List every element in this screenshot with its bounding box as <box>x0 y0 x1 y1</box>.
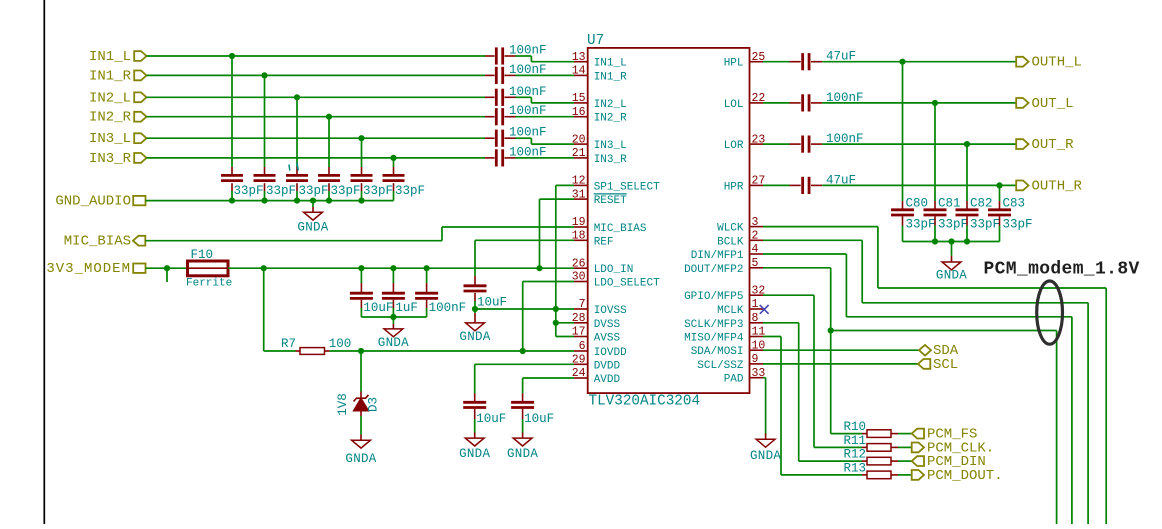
svg-text:IN2_L: IN2_L <box>89 90 131 106</box>
junction IN2_L <box>294 94 300 100</box>
junction IN2_R <box>326 114 332 120</box>
hierarchical label PCM_FS <box>912 427 978 443</box>
resistor R7 100 <box>281 337 351 354</box>
resistor R12 <box>843 448 898 465</box>
pin 5 DOUT/MFP2 <box>684 257 763 276</box>
junction DVSS <box>553 320 559 326</box>
junction OUTH_L <box>899 59 905 65</box>
wire R12 feed <box>763 323 867 461</box>
svg-text:D3: D3 <box>366 397 380 412</box>
wire HPR to cap <box>763 184 801 186</box>
svg-text:3: 3 <box>752 216 759 229</box>
capacitor C81 33pF <box>924 197 969 242</box>
svg-text:MCLK: MCLK <box>717 305 744 317</box>
svg-text:IOVDD: IOVDD <box>594 347 627 359</box>
ground GNDA C80 bank <box>936 242 967 283</box>
pin 3 WLCK <box>717 216 763 235</box>
svg-text:C82: C82 <box>970 197 993 211</box>
hierarchical label GND_AUDIO <box>55 194 145 210</box>
wire IN2_L row <box>147 96 495 98</box>
capacitor 100nF C-in3 <box>496 85 546 106</box>
pin 2 BCLK <box>717 230 763 249</box>
pin 22 LOL <box>724 92 766 111</box>
svg-text:2: 2 <box>752 230 759 243</box>
svg-text:1V8: 1V8 <box>336 393 350 416</box>
junction IN1_L <box>229 53 235 59</box>
wire R13 feed <box>763 337 867 475</box>
junction IN1_R <box>261 72 267 78</box>
svg-text:1uF: 1uF <box>395 301 418 315</box>
wire SP1_SELECT tie to IOVSS <box>556 185 574 336</box>
svg-text:33pF: 33pF <box>970 217 1000 231</box>
pin 6 IOVDD <box>574 340 627 359</box>
capacitor 100nF C-in5 <box>496 126 546 147</box>
svg-text:R10: R10 <box>843 420 866 434</box>
svg-text:PCM_DOUT.: PCM_DOUT. <box>927 468 1003 484</box>
svg-text:SCLK/MFP3: SCLK/MFP3 <box>684 319 743 331</box>
svg-text:GNDA: GNDA <box>459 447 490 461</box>
hierarchical label 3V3_MODEM <box>46 261 145 277</box>
pin 31 RESET <box>572 188 627 207</box>
svg-text:Ferrite: Ferrite <box>186 278 232 290</box>
junction DOUT to R10 <box>828 327 834 333</box>
hierarchical label IN3_R <box>89 151 147 167</box>
capacitor 10uF decoupling <box>350 268 394 317</box>
wire C81 drop <box>934 103 936 210</box>
svg-text:TLV320AIC3204: TLV320AIC3204 <box>589 394 701 410</box>
svg-text:RESET: RESET <box>594 195 627 207</box>
wire cap to pin 20 <box>516 138 575 144</box>
pin 28 DVSS <box>572 312 621 331</box>
svg-text:C83: C83 <box>1003 197 1026 211</box>
svg-text:100nF: 100nF <box>429 301 467 315</box>
junction OUTH_R <box>996 182 1002 188</box>
svg-text:R7: R7 <box>281 337 296 351</box>
capacitor 10uF AVDD <box>511 402 554 426</box>
svg-text:HPR: HPR <box>724 181 744 193</box>
svg-text:PAD: PAD <box>724 374 744 386</box>
wire SCL <box>763 363 918 365</box>
capacitor C80 33pF <box>891 197 936 242</box>
hierarchical label IN1_L <box>89 49 147 65</box>
pin 23 LOR <box>724 133 766 152</box>
pin 30 LDO_SELECT <box>572 271 660 290</box>
svg-text:GNDA: GNDA <box>345 452 376 466</box>
pin 29 DVDD <box>572 354 621 373</box>
svg-text:3V3_MODEM: 3V3_MODEM <box>46 261 131 277</box>
svg-text:33pF: 33pF <box>938 217 968 231</box>
junction GND_AUDIO <box>294 198 300 204</box>
pin 18 REF <box>572 230 614 249</box>
capacitor 47uF output 4 <box>803 173 856 194</box>
ground GNDA REF cap <box>459 313 490 344</box>
svg-text:R13: R13 <box>843 461 866 475</box>
pin 25 HPL <box>724 51 766 70</box>
junction C80 bus <box>948 238 954 244</box>
svg-text:4: 4 <box>752 243 759 256</box>
svg-text:DOUT/MFP2: DOUT/MFP2 <box>684 264 743 276</box>
pin 12 SP1_SELECT <box>572 175 660 194</box>
capacitor 100nF C-in2 <box>496 63 546 84</box>
svg-text:IN3_L: IN3_L <box>89 131 131 147</box>
svg-text:HPL: HPL <box>724 58 744 70</box>
svg-text:LOL: LOL <box>724 99 744 111</box>
svg-text:WLCK: WLCK <box>717 223 744 235</box>
svg-text:GNDA: GNDA <box>936 269 967 283</box>
wire R10 feed <box>831 331 867 434</box>
svg-text:33pF: 33pF <box>1003 217 1033 231</box>
junction D3 tap <box>358 348 364 354</box>
wire R10 to PCM_FS <box>898 433 912 435</box>
wire C80 bank bus <box>903 241 1000 243</box>
svg-text:F10: F10 <box>191 248 214 262</box>
svg-text:OUT_L: OUT_L <box>1032 96 1074 112</box>
capacitor C83 33pF <box>988 197 1033 242</box>
hierarchical label IN1_R <box>89 68 147 84</box>
wire DOUT/MFP2 bus <box>763 268 1057 524</box>
svg-text:GNDA: GNDA <box>378 336 409 350</box>
junction 3V3 rail <box>424 265 430 271</box>
wire 3V3 branch to R7 <box>264 268 300 351</box>
wire 3V3 rail <box>228 267 574 269</box>
wire REF <box>475 240 574 286</box>
svg-text:10uF: 10uF <box>524 412 554 426</box>
svg-text:DVDD: DVDD <box>594 360 621 372</box>
svg-text:GNDA: GNDA <box>459 330 490 344</box>
capacitor 100nF output 2 <box>803 91 864 112</box>
no-connect X on pin 1 MCLK <box>760 305 769 314</box>
svg-text:33pF: 33pF <box>266 184 296 198</box>
junction OUT_L <box>932 100 938 106</box>
wire DIN/MFP1 bus <box>763 254 1072 524</box>
svg-text:IN2_L: IN2_L <box>594 99 627 111</box>
svg-text:10uF: 10uF <box>476 412 506 426</box>
svg-text:GPIO/MFP5: GPIO/MFP5 <box>684 291 743 303</box>
svg-text:10uF: 10uF <box>477 296 507 310</box>
pin 19 MIC_BIAS <box>572 216 647 235</box>
svg-text:6: 6 <box>579 340 586 353</box>
pin 32 GPIO/MFP5 <box>684 284 765 303</box>
wire C80 drop <box>902 62 904 211</box>
svg-text:AVSS: AVSS <box>594 333 621 345</box>
svg-text:IN1_L: IN1_L <box>89 49 131 65</box>
svg-text:LDO_SELECT: LDO_SELECT <box>594 278 660 290</box>
junction C80 bus <box>932 238 938 244</box>
junction OUT_R <box>964 141 970 147</box>
capacitor 100nF decoupling <box>415 268 466 317</box>
junction GND_AUDIO <box>261 198 267 204</box>
wire IOVSS row <box>475 308 574 310</box>
pin 8 SCLK/MFP3 <box>684 312 763 331</box>
capacitor 100nF output 3 <box>803 132 864 153</box>
wire IN3_L row <box>147 137 495 139</box>
hierarchical label IN2_R <box>89 110 147 126</box>
capacitor 33pF bank2 <box>254 175 297 200</box>
pin 24 AVDD <box>572 367 621 386</box>
hierarchical label PCM_CLK. <box>912 440 995 456</box>
pin 33 PAD <box>724 367 766 386</box>
wire SDA <box>763 349 919 351</box>
junction IN3_R <box>390 155 396 161</box>
wire IN2_R drop to 33pF <box>328 117 330 176</box>
junction GND_AUDIO <box>326 198 332 204</box>
svg-text:SP1_SELECT: SP1_SELECT <box>594 181 660 193</box>
svg-text:U7: U7 <box>587 33 604 49</box>
pin 13 IN1_L <box>572 51 627 70</box>
wire IN1_R drop to 33pF <box>264 75 266 175</box>
hierarchical label OUT_L <box>1016 96 1073 112</box>
resistor R13 <box>843 461 898 478</box>
wire R13 to PCM_DOUT. <box>898 474 912 476</box>
svg-text:BCLK: BCLK <box>717 236 744 248</box>
wire cap to pin 21 <box>516 157 575 159</box>
junction 3V3 rail <box>261 265 267 271</box>
svg-text:C80: C80 <box>906 197 929 211</box>
junction IN3_L <box>358 135 364 141</box>
svg-text:LDO_IN: LDO_IN <box>594 264 634 276</box>
svg-text:SCL/SSZ: SCL/SSZ <box>697 360 744 372</box>
wire DVSS <box>556 322 574 324</box>
junction 3V3 stub <box>164 265 170 271</box>
junction LDO_SELECT tie <box>520 348 526 354</box>
capacitor 10uF REF <box>464 286 508 313</box>
svg-text:AVDD: AVDD <box>594 374 621 386</box>
svg-text:C81: C81 <box>938 197 961 211</box>
svg-text:GNDA: GNDA <box>750 449 781 463</box>
resistor R11 <box>843 434 898 451</box>
pin 11 MISO/MFP4 <box>684 326 765 345</box>
wire DVDD <box>475 364 574 403</box>
junction 3V3 rail <box>390 265 396 271</box>
svg-text:MIC_BIAS: MIC_BIAS <box>594 223 647 235</box>
svg-text:DIN/MFP1: DIN/MFP1 <box>691 250 744 262</box>
svg-text:33pF: 33pF <box>331 184 361 198</box>
wire cap to pin 15 <box>516 97 575 103</box>
pin 16 IN2_R <box>572 106 627 125</box>
svg-text:IN1_R: IN1_R <box>89 68 132 84</box>
svg-text:7: 7 <box>579 298 586 311</box>
ground GNDA decoupling bank <box>378 317 409 350</box>
svg-text:IN3_L: IN3_L <box>594 140 627 152</box>
ground GNDA under 33pF bank <box>297 201 328 235</box>
wire LOR to cap <box>763 143 801 145</box>
pin 10 SDA/MOSI <box>691 339 766 358</box>
wire MIC_BIAS <box>146 227 575 241</box>
ground GNDA AVDD <box>507 419 538 461</box>
svg-text:33pF: 33pF <box>363 184 393 198</box>
wire C82 drop <box>966 144 968 210</box>
wire PAD <box>763 378 766 440</box>
svg-text:R11: R11 <box>843 434 866 448</box>
wire to OUTH_R <box>822 184 1016 186</box>
capacitor 33pF bank4 <box>318 175 361 200</box>
wire LOL to cap <box>763 102 801 104</box>
capacitor 100nF C-in6 <box>496 145 546 166</box>
ground GNDA DVDD <box>459 419 490 461</box>
svg-text:SDA/MOSI: SDA/MOSI <box>691 346 744 358</box>
hierarchical label OUT_R <box>1016 137 1074 153</box>
wire IN3_L drop to 33pF <box>361 138 363 175</box>
svg-text:9: 9 <box>752 353 759 366</box>
wire cap to pin 13 <box>516 56 575 62</box>
svg-text:IOVSS: IOVSS <box>594 305 627 317</box>
svg-text:100: 100 <box>329 337 352 351</box>
junction REF cap to IOVSS <box>472 306 478 312</box>
svg-text:10uF: 10uF <box>363 301 393 315</box>
capacitor 33pF bank6 <box>383 175 426 200</box>
pin 20 IN3_L <box>572 133 627 152</box>
junction GND_AUDIO <box>358 198 364 204</box>
pin 15 IN2_L <box>572 92 627 111</box>
wire stub down <box>166 268 168 282</box>
wire R12 to PCM_DIN <box>898 460 912 462</box>
junction C80 bus <box>964 238 970 244</box>
wire WLCK bus <box>763 227 1106 524</box>
hierarchical label IN2_L <box>89 90 147 106</box>
svg-text:OUTH_L: OUTH_L <box>1032 55 1082 71</box>
op-amp U7 TLV320AIC3204 body <box>587 33 750 410</box>
hierarchical label MIC_BIAS <box>64 234 146 250</box>
svg-text:R12: R12 <box>843 448 866 462</box>
svg-text:OUTH_R: OUTH_R <box>1032 178 1083 194</box>
pin 26 LDO_IN <box>572 257 634 276</box>
ferrite bead F10 <box>186 248 232 290</box>
svg-text:1: 1 <box>752 298 759 311</box>
junction GND_AUDIO <box>229 198 235 204</box>
hierarchical label PCM_DOUT. <box>912 468 1003 484</box>
capacitor 100nF C-in4 <box>496 104 546 125</box>
pin 4 DIN/MFP1 <box>691 243 763 262</box>
wire IN3_R drop to 33pF <box>393 158 395 175</box>
junction 3V3 rail <box>358 265 364 271</box>
junction GNDA tap <box>310 198 316 204</box>
svg-text:MISO/MFP4: MISO/MFP4 <box>684 333 744 345</box>
svg-text:IN3_R: IN3_R <box>594 154 627 166</box>
svg-text:LOR: LOR <box>724 140 744 152</box>
svg-text:REF: REF <box>594 236 614 248</box>
svg-text:8: 8 <box>752 312 759 325</box>
capacitor 33pF bank5 <box>351 175 394 200</box>
capacitor 1uF decoupling <box>382 268 418 317</box>
capacitor 10uF DVDD <box>463 402 506 426</box>
wire AVDD <box>523 378 574 403</box>
wire IOVDD row <box>330 350 575 352</box>
svg-text:IN2_R: IN2_R <box>594 113 627 125</box>
junction decoupling bus <box>390 314 396 320</box>
wire IN3_R row <box>147 157 495 159</box>
hierarchical label SDA <box>919 343 959 359</box>
svg-text:OUT_R: OUT_R <box>1032 137 1075 153</box>
wire IN1_L drop to 33pF <box>231 56 233 175</box>
capacitor C82 33pF <box>956 197 1001 242</box>
wire IN2_L drop to 33pF <box>296 97 298 175</box>
wire C83 drop <box>999 185 1001 210</box>
pin 7 IOVSS <box>574 298 627 317</box>
capacitor 33pF bank1 <box>221 175 264 200</box>
svg-text:SCL: SCL <box>933 357 958 373</box>
wire decoupling bus <box>361 316 426 318</box>
wire to OUT_L <box>822 102 1016 104</box>
wire cap to pin 14 <box>516 74 575 76</box>
pin 21 IN3_R <box>572 147 627 166</box>
pin 14 IN1_R <box>572 65 627 84</box>
capacitor 100nF C-in1 <box>496 44 546 65</box>
hierarchical label OUTH_R <box>1016 178 1082 194</box>
svg-text:33pF: 33pF <box>395 184 425 198</box>
pin 27 HPR <box>724 175 766 194</box>
svg-text:GND_AUDIO: GND_AUDIO <box>55 194 131 210</box>
capacitor 33pF bank3 <box>286 175 329 200</box>
svg-text:IN2_R: IN2_R <box>89 110 132 126</box>
wire to OUT_R <box>822 143 1016 145</box>
svg-text:IN3_R: IN3_R <box>89 151 132 167</box>
svg-text:MIC_BIAS: MIC_BIAS <box>64 234 131 250</box>
pin 1 MCLK <box>717 298 763 317</box>
wire 3V3_MODEM to F10 <box>146 267 188 269</box>
wire IN1_L row <box>147 55 495 57</box>
diode D3 zener 1V8 <box>336 351 381 416</box>
wire BCLK bus <box>763 240 1088 524</box>
resistor R10 <box>843 420 898 437</box>
wire IN1_R row <box>147 74 495 76</box>
wire RESET tie to 3V3 <box>540 199 575 268</box>
annotation ellipse <box>1037 281 1063 344</box>
wire R11 to PCM_CLK. <box>898 446 912 448</box>
wire GND_AUDIO bus <box>146 200 394 202</box>
svg-text:5: 5 <box>752 257 759 270</box>
stray label marks <box>289 163 298 171</box>
svg-text:PCM_modem_1.8V: PCM_modem_1.8V <box>984 260 1140 280</box>
hierarchical label IN3_L <box>89 131 147 147</box>
wire R11 feed <box>763 295 867 447</box>
junction 3V3 rail <box>536 265 542 271</box>
svg-text:33pF: 33pF <box>234 184 264 198</box>
pin 17 AVSS <box>572 326 621 345</box>
svg-text:DVSS: DVSS <box>594 319 621 331</box>
wire to OUTH_L <box>822 61 1016 63</box>
svg-text:IN1_R: IN1_R <box>594 71 627 83</box>
hierarchical label SCL <box>918 357 958 373</box>
wire cap to pin 16 <box>516 116 575 118</box>
svg-text:GNDA: GNDA <box>297 221 328 235</box>
wire LDO_SELECT tie <box>523 282 574 352</box>
hierarchical label PCM_DIN <box>912 454 986 470</box>
wire HPL to cap <box>763 61 801 63</box>
svg-text:33pF: 33pF <box>906 217 936 231</box>
wire IN2_R row <box>147 116 495 118</box>
hierarchical label OUTH_L <box>1016 55 1082 71</box>
ground GNDA PAD <box>756 439 775 447</box>
junction IOVSS <box>553 306 559 312</box>
capacitor 47uF output 1 <box>803 50 856 71</box>
ground GNDA D3 <box>345 416 376 466</box>
svg-text:GNDA: GNDA <box>507 447 538 461</box>
svg-text:33pF: 33pF <box>299 184 329 198</box>
pin 9 SCL/SSZ <box>697 353 763 372</box>
svg-text:IN1_L: IN1_L <box>594 58 627 70</box>
